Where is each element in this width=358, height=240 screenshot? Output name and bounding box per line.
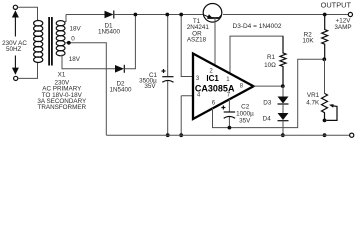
wire top terminal to primary top: [18, 7, 38, 20]
node pin4 bottom: [179, 133, 183, 137]
svg-text:10Ω: 10Ω: [264, 62, 276, 69]
svg-text:C2: C2: [241, 103, 250, 110]
node C1 top: [165, 13, 169, 17]
AC source arrow up: [12, 10, 19, 36]
bottom rail: [106, 134, 349, 136]
wire node to D3: [282, 86, 284, 96]
terminal AC bottom: [14, 76, 18, 80]
diode D2: [115, 65, 124, 73]
node C2 bottom: [228, 126, 232, 130]
node C1 bottom: [166, 133, 170, 137]
svg-text:18V: 18V: [70, 26, 82, 33]
wire pin1 to R1 top: [230, 36, 283, 73]
svg-text:D4: D4: [263, 115, 272, 122]
node R2 bottom: [322, 57, 326, 61]
wire pin3 branch: [181, 15, 192, 77]
wire center tap to bottom rail: [65, 43, 106, 135]
svg-text:35V: 35V: [239, 117, 251, 124]
capacitor C1: [167, 15, 169, 77]
top rail D1 to transistor: [114, 14, 203, 16]
label T1 2N4241 OR ASZ18: [187, 18, 210, 44]
wire output pin8: [254, 85, 284, 87]
terminal AC top: [13, 5, 17, 9]
svg-text:35V: 35V: [144, 83, 156, 90]
resistor R2: [322, 15, 328, 60]
svg-text:1000µ: 1000µ: [236, 110, 254, 117]
node R1/D3: [281, 84, 285, 88]
svg-text:TRANSFORMER: TRANSFORMER: [37, 104, 86, 111]
svg-text:VR1: VR1: [307, 92, 320, 99]
svg-text:ASZ18: ASZ18: [187, 37, 207, 44]
svg-text:OUTPUT: OUTPUT: [321, 0, 352, 9]
resistor R1: [280, 36, 286, 86]
svg-text:R1: R1: [267, 54, 276, 61]
AC source arrow down: [12, 56, 19, 75]
top rail left: [66, 14, 105, 16]
wire D4 to bottom rail: [282, 121, 284, 136]
svg-text:50HZ: 50HZ: [6, 46, 22, 53]
diode D3: [278, 97, 289, 105]
svg-text:18V: 18V: [69, 56, 81, 63]
node pin3 rail: [179, 13, 183, 17]
svg-text:1N5400: 1N5400: [98, 28, 121, 35]
svg-text:D3-D4 = 1N4002: D3-D4 = 1N4002: [233, 23, 282, 30]
transformer X1 primary winding: [34, 21, 43, 63]
svg-text:X1: X1: [58, 72, 66, 79]
op-amp IC1 triangle: [193, 54, 254, 120]
svg-text:1N5400: 1N5400: [109, 86, 132, 93]
node D2 rail: [134, 13, 138, 17]
svg-text:0: 0: [71, 36, 75, 43]
transformer X1 secondary winding: [56, 21, 65, 56]
capacitor C2: [228, 99, 230, 112]
svg-text:IC1: IC1: [206, 74, 219, 83]
wire bottom terminal to primary bottom: [18, 63, 38, 79]
potentiometer VR1: [324, 59, 326, 93]
node center tap: [67, 41, 71, 45]
diode D1: [105, 11, 114, 19]
diode D4: [278, 113, 289, 121]
node VR1 wiper: [323, 119, 327, 123]
transistor T1: [203, 4, 222, 23]
wire secondary top to rail: [64, 15, 66, 22]
svg-text:4.7K: 4.7K: [306, 100, 320, 107]
transformer label X1 230V AC PRIMARY TO 18V-0-18V 3A SECONDARY TRANSFORMER: [37, 72, 87, 112]
wire secondary bottom to D2: [62, 55, 115, 69]
wire D3 to D4: [282, 104, 284, 113]
top rail transistor to output: [223, 14, 348, 16]
svg-text:CA3085A: CA3085A: [195, 84, 235, 94]
VR1 wiper: [327, 106, 338, 121]
wire pin6 line: [213, 59, 325, 127]
wire base to pin2: [214, 17, 216, 65]
node output R2: [323, 13, 327, 17]
wire pin4 branch: [181, 96, 192, 135]
svg-text:D3: D3: [263, 100, 272, 107]
node D4 bottom: [281, 133, 285, 137]
transformer core: [48, 17, 50, 66]
terminal output -: [350, 133, 354, 137]
wire D2 up to rail: [124, 15, 135, 69]
svg-text:10K: 10K: [302, 37, 314, 44]
svg-text:3AMP: 3AMP: [334, 24, 351, 31]
terminal output +: [348, 12, 352, 16]
node VR1 bottom: [323, 133, 327, 137]
